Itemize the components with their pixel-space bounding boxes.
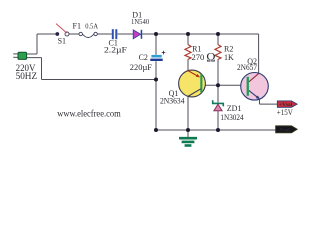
svg-text:2N657: 2N657 xyxy=(237,63,257,72)
svg-text:Ω: Ω xyxy=(206,51,215,65)
svg-text:270: 270 xyxy=(192,52,205,62)
svg-text:ZD1: ZD1 xyxy=(227,104,242,113)
svg-text:+Vsal: +Vsal xyxy=(279,102,293,108)
svg-text:1N3024: 1N3024 xyxy=(220,113,243,122)
svg-text:0.5A: 0.5A xyxy=(85,21,98,30)
svg-text:2N3634: 2N3634 xyxy=(160,97,185,106)
svg-text:-Vsal: -Vsal xyxy=(278,127,290,133)
svg-text:220µF: 220µF xyxy=(130,63,153,72)
svg-text:50HZ: 50HZ xyxy=(16,72,38,82)
svg-text:+15V: +15V xyxy=(277,108,293,117)
svg-text:1N540: 1N540 xyxy=(131,17,149,26)
svg-text:www.elecfree.com: www.elecfree.com xyxy=(57,109,121,120)
svg-text:S1: S1 xyxy=(58,36,66,45)
svg-text:R2: R2 xyxy=(224,45,233,54)
svg-text:C2: C2 xyxy=(139,53,148,62)
svg-text:1K: 1K xyxy=(224,53,234,62)
svg-text:F1: F1 xyxy=(73,21,81,30)
svg-text:2.2µF: 2.2µF xyxy=(104,45,128,54)
